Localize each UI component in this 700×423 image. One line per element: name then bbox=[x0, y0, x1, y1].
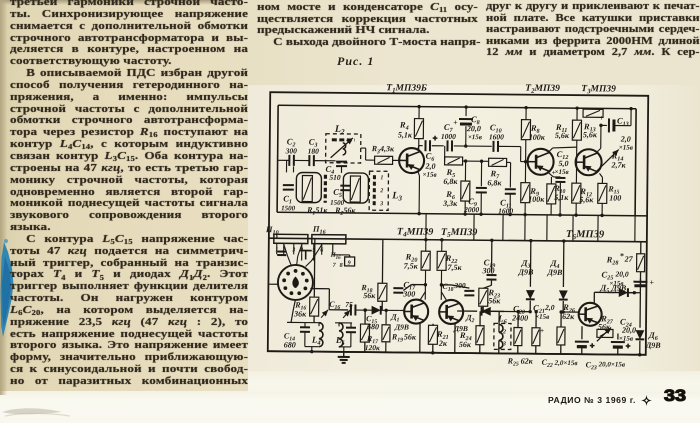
svg-text:56к: 56к bbox=[363, 291, 376, 300]
svg-text:2,0: 2,0 bbox=[544, 303, 555, 312]
resistor R4 bbox=[414, 119, 423, 139]
wire C7 to C10 bbox=[454, 145, 492, 147]
resistor R11 bbox=[576, 108, 578, 120]
svg-text:R25: R25 bbox=[507, 356, 519, 367]
svg-text:2400: 2400 bbox=[511, 314, 528, 323]
wire T1 collector bbox=[418, 146, 419, 151]
connector pin 9 box bbox=[345, 257, 355, 266]
svg-text:5,6к: 5,6к bbox=[579, 195, 594, 204]
capacitor C9 bbox=[480, 161, 482, 186]
wire stage1 tank top bbox=[292, 166, 294, 172]
svg-text:2,0×15в: 2,0×15в bbox=[554, 359, 578, 367]
svg-text:+: + bbox=[453, 118, 458, 127]
capacitor C18 bbox=[441, 284, 451, 286]
resistor R21 bbox=[432, 324, 434, 326]
svg-text:20,0: 20,0 bbox=[614, 270, 628, 279]
svg-text:R19: R19 bbox=[391, 332, 403, 343]
svg-text:+: + bbox=[626, 342, 631, 351]
inductor L2 dashed box bbox=[326, 134, 361, 163]
transistor T1 bbox=[399, 148, 424, 173]
frame outer border bbox=[268, 92, 648, 355]
svg-text:+: + bbox=[540, 327, 544, 335]
resistor R26 bbox=[560, 312, 562, 327]
capacitor C16 bbox=[310, 288, 329, 290]
svg-text:20,0: 20,0 bbox=[621, 326, 636, 335]
svg-text:×15в: ×15в bbox=[619, 144, 633, 152]
wire T4 collector bbox=[420, 292, 425, 300]
tank L5 C15 bbox=[335, 322, 352, 324]
resistor R19 bbox=[385, 310, 387, 324]
diode D4 bbox=[562, 241, 564, 287]
svg-text:Д2: Д2 bbox=[465, 313, 475, 324]
resistor R13 bbox=[583, 109, 603, 117]
svg-text:56к: 56к bbox=[598, 322, 611, 331]
svg-text:300: 300 bbox=[453, 281, 466, 290]
capacitor C1 bbox=[283, 184, 294, 186]
wire input line bbox=[278, 159, 289, 161]
potentiometer R14 arrow bbox=[597, 149, 619, 171]
svg-text:9: 9 bbox=[348, 260, 351, 266]
svg-text:5,6к: 5,6к bbox=[583, 130, 598, 139]
svg-text:L5: L5 bbox=[335, 335, 346, 347]
svg-text:2,7к: 2,7к bbox=[611, 160, 627, 169]
capacitor C4 bbox=[336, 161, 347, 163]
resistor R18 bbox=[381, 239, 383, 283]
middle column text bbox=[257, 2, 478, 48]
svg-text:2000: 2000 bbox=[463, 205, 479, 214]
diode D5 bbox=[607, 291, 615, 293]
svg-text:1: 1 bbox=[380, 175, 383, 181]
wire T1 emitter to rail bbox=[417, 171, 419, 176]
transistor T6 bbox=[579, 303, 602, 326]
svg-text:1600: 1600 bbox=[489, 132, 504, 141]
diode D1 bbox=[372, 306, 381, 315]
resistor R12 bbox=[572, 183, 581, 203]
capacitor C24 bbox=[617, 334, 619, 340]
svg-text:L4: L4 bbox=[311, 335, 322, 347]
svg-text:16: 16 bbox=[336, 256, 342, 261]
resistor R23 bbox=[483, 285, 491, 288]
svg-text:8: 8 bbox=[340, 263, 343, 269]
svg-text:Д9В: Д9В bbox=[453, 324, 468, 333]
svg-text:+: + bbox=[590, 341, 595, 350]
resistor R5 bbox=[444, 146, 446, 161]
capacitor C17 bbox=[411, 284, 425, 286]
wire mid rail upper section ground bbox=[277, 212, 647, 216]
footer bbox=[548, 395, 636, 405]
svg-text:R256к: R256к bbox=[334, 206, 356, 217]
svg-text:680: 680 bbox=[284, 340, 296, 349]
svg-text:6,8к: 6,8к bbox=[487, 178, 502, 187]
svg-text:300: 300 bbox=[285, 146, 298, 155]
capacitor C22 electrolytic bbox=[581, 326, 583, 339]
connector P16 box bbox=[312, 235, 346, 244]
svg-text:3: 3 bbox=[502, 341, 506, 347]
wire frame to socket bbox=[268, 283, 277, 285]
capacitor socket bypass bbox=[277, 251, 286, 253]
svg-text:5,1к: 5,1к bbox=[398, 130, 413, 139]
svg-text:2: 2 bbox=[379, 188, 383, 194]
capacitor C10 bbox=[492, 141, 494, 152]
tuned circuit L1 C1 tank bbox=[296, 172, 321, 202]
svg-text:Т3МП39: Т3МП39 bbox=[581, 84, 616, 95]
svg-text:100к: 100к bbox=[528, 195, 545, 204]
svg-text:5,1к: 5,1к bbox=[554, 193, 569, 202]
transistor T4 bbox=[404, 299, 428, 323]
svg-text:3,3к: 3,3к bbox=[442, 199, 458, 208]
transistor T2 bbox=[527, 149, 553, 175]
wire R5 R7 bbox=[463, 160, 489, 162]
left column text bbox=[10, 0, 248, 388]
ground symbol bbox=[343, 353, 345, 357]
capacitor C2 bbox=[288, 155, 290, 166]
svg-text:×15в: ×15в bbox=[554, 168, 568, 176]
svg-text:+: + bbox=[433, 134, 438, 143]
svg-text:2,0: 2,0 bbox=[620, 135, 631, 144]
svg-text:2к: 2к bbox=[438, 339, 448, 348]
wire T4 T5 emitters bbox=[419, 324, 421, 353]
svg-text:L3: L3 bbox=[391, 190, 402, 202]
resistor R15 bbox=[599, 173, 602, 177]
resistor R22 bbox=[441, 240, 443, 251]
wire inner right bbox=[635, 109, 636, 216]
svg-text:×15в: ×15в bbox=[468, 133, 482, 141]
diode D3 bbox=[529, 241, 531, 287]
svg-text:2,0: 2,0 bbox=[425, 162, 436, 171]
svg-text:Т1МП39Б: Т1МП39Б bbox=[386, 83, 427, 94]
svg-text:7: 7 bbox=[333, 263, 337, 269]
svg-text:56к: 56к bbox=[488, 296, 501, 305]
wire connector pins into socket bbox=[284, 244, 292, 266]
tuning arrow L2 bbox=[331, 138, 353, 158]
svg-text:Т5МП39: Т5МП39 bbox=[441, 227, 477, 239]
svg-text:300: 300 bbox=[402, 289, 415, 298]
svg-text:1600: 1600 bbox=[498, 206, 513, 215]
right column text bbox=[486, 1, 700, 59]
capacitor C20 trimmer bbox=[514, 328, 522, 346]
svg-text:+: + bbox=[649, 278, 654, 287]
resistor R7 bbox=[489, 158, 507, 166]
svg-text:1000: 1000 bbox=[441, 132, 456, 141]
svg-text:L2: L2 bbox=[334, 124, 345, 136]
resistor R20 bbox=[425, 240, 427, 251]
diode D6 bbox=[636, 330, 645, 339]
paper background washes bbox=[0, 0, 262, 400]
svg-text:Д9В: Д9В bbox=[645, 341, 662, 350]
figure caption bbox=[337, 54, 374, 69]
tank L4 C14 bbox=[305, 322, 321, 324]
svg-text:7,5к: 7,5к bbox=[448, 263, 463, 272]
svg-text:C23: C23 bbox=[586, 360, 597, 371]
capacitor C7 bbox=[446, 140, 448, 151]
inductor L6 tank bbox=[494, 323, 511, 349]
wire D4 to T6 base bbox=[563, 311, 578, 313]
svg-text:×15в: ×15в bbox=[619, 335, 633, 343]
resistor R10 bbox=[550, 177, 552, 184]
tuning arrow L4 bbox=[321, 310, 328, 318]
svg-text:120к: 120к bbox=[365, 343, 380, 352]
svg-text:56к: 56к bbox=[404, 332, 417, 341]
capacitor C21 bbox=[532, 328, 540, 346]
svg-text:510: 510 bbox=[329, 173, 341, 182]
svg-text:300: 300 bbox=[482, 266, 495, 275]
svg-text:62к: 62к bbox=[562, 312, 575, 321]
capacitor C5 bbox=[340, 185, 350, 187]
svg-text:R34,3к: R34,3к bbox=[371, 144, 395, 155]
wire C10 to T2 base bbox=[498, 145, 521, 147]
inductor L3 dashed box bbox=[369, 171, 388, 210]
capacitor C6 electrolytic bbox=[419, 145, 423, 147]
wire T6 collector bbox=[593, 292, 595, 303]
svg-text:C5: C5 bbox=[333, 187, 342, 199]
capacitor C11 bbox=[509, 163, 511, 188]
wire T5 collector bbox=[441, 292, 446, 300]
capacitor C12 electrolytic bbox=[548, 173, 553, 177]
transistor T5 bbox=[439, 300, 463, 324]
svg-text:R28: R28 bbox=[606, 254, 619, 266]
svg-text:20,0: 20,0 bbox=[466, 124, 481, 133]
resistor R16 bbox=[313, 239, 316, 297]
capacitor C8 electrolytic bbox=[465, 107, 467, 116]
wire trigger output node bbox=[483, 310, 530, 312]
tube socket bbox=[278, 265, 313, 300]
wire top supply rail bbox=[278, 105, 636, 108]
resistor R8 bbox=[525, 108, 527, 120]
svg-text:×15в: ×15в bbox=[609, 279, 623, 287]
diode D2 bbox=[457, 310, 477, 312]
svg-text:3: 3 bbox=[379, 201, 383, 207]
wire T3 collector bbox=[597, 148, 601, 152]
svg-text:Т2МП39: Т2МП39 bbox=[525, 84, 560, 95]
blue ink smudge on left edge bbox=[0, 238, 20, 346]
svg-text:2: 2 bbox=[502, 329, 506, 335]
svg-text:Д9В: Д9В bbox=[394, 322, 409, 331]
svg-text:75: 75 bbox=[345, 300, 353, 309]
wire L2 to R3 bbox=[361, 147, 366, 149]
svg-text:56к: 56к bbox=[459, 340, 472, 349]
wire bottom bus bbox=[268, 351, 646, 355]
wire D1 to T4 base bbox=[399, 309, 405, 311]
wire socket to R16 bbox=[291, 300, 295, 322]
svg-text:C22: C22 bbox=[542, 358, 553, 369]
svg-text:5,0: 5,0 bbox=[559, 159, 569, 168]
svg-text:Т6МП39: Т6МП39 bbox=[566, 229, 605, 241]
wire section links bbox=[425, 214, 427, 240]
transistor T3 bbox=[575, 149, 601, 175]
svg-text:7,5к: 7,5к bbox=[404, 261, 419, 270]
svg-text:Т4МП39: Т4МП39 bbox=[397, 226, 433, 238]
wire socket feeds bbox=[276, 234, 278, 238]
svg-text:Д9В: Д9В bbox=[546, 268, 563, 277]
svg-text:36к: 36к bbox=[293, 309, 307, 318]
capacitor C19 bbox=[491, 240, 493, 272]
tuned circuit L5a C5 tank bbox=[343, 173, 368, 203]
resistor R9 bbox=[524, 162, 526, 183]
svg-text:1500: 1500 bbox=[281, 204, 296, 212]
svg-text:20,0×15в: 20,0×15в bbox=[598, 360, 625, 368]
svg-text:×15в: ×15в bbox=[535, 313, 549, 321]
capacitor C25 electrolytic bbox=[639, 279, 641, 284]
wire lower section top rail bbox=[269, 238, 647, 242]
wire inner left bbox=[277, 105, 278, 212]
svg-text:5,6к: 5,6к bbox=[555, 131, 570, 140]
svg-text:C18: C18 bbox=[442, 282, 453, 293]
resistor R3 bbox=[375, 156, 393, 164]
svg-text:Д9В: Д9В bbox=[517, 268, 534, 277]
resistor R28 bbox=[640, 242, 642, 254]
svg-text:180: 180 bbox=[308, 147, 320, 156]
resistor R24 bbox=[476, 326, 484, 345]
svg-text:62к: 62к bbox=[521, 357, 534, 366]
svg-text:×15в: ×15в bbox=[422, 171, 436, 179]
connector P10 box bbox=[274, 234, 308, 243]
svg-text:6,8к: 6,8к bbox=[443, 177, 458, 186]
svg-text:R151к: R151к bbox=[306, 206, 328, 217]
resistor R6 bbox=[464, 161, 466, 181]
wire rail to R4 bbox=[418, 107, 420, 119]
wire R3 to T1 base bbox=[393, 159, 403, 161]
wire right rail bbox=[639, 293, 641, 328]
resistor R17 bbox=[364, 310, 366, 324]
potentiometer R27 bbox=[597, 329, 613, 337]
svg-text:27: 27 bbox=[624, 255, 634, 264]
capacitor C13 electrolytic bbox=[601, 124, 607, 126]
svg-text:100к: 100к bbox=[529, 133, 546, 142]
capacitor C3 bbox=[308, 155, 310, 166]
svg-text:+: + bbox=[599, 113, 604, 122]
wire T2 collector to R11 bbox=[549, 148, 553, 152]
svg-text:100: 100 bbox=[609, 193, 621, 202]
